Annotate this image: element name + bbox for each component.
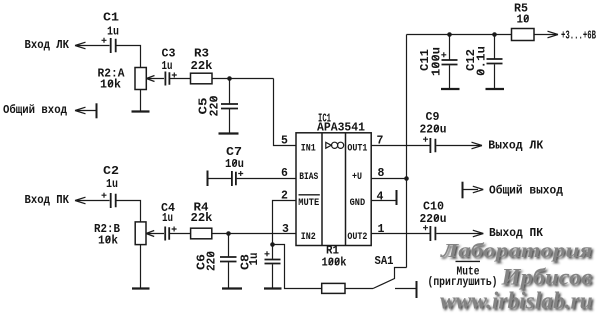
switch SA1 bbox=[373, 268, 417, 299]
capacitor C9 bbox=[423, 137, 435, 153]
svg-text:2: 2 bbox=[281, 190, 288, 203]
svg-text:Выход ПК: Выход ПК bbox=[489, 227, 543, 240]
wire IC pin 1 to C10 bbox=[371, 233, 429, 235]
svg-text:+3...+6В: +3...+6В bbox=[561, 30, 596, 43]
label Mute overline bbox=[456, 260, 481, 262]
port Общий вход terminal bbox=[96, 103, 98, 118]
terminal bar (C7 left) bbox=[207, 171, 209, 187]
supply rail wire bbox=[407, 34, 512, 36]
svg-text:SA1: SA1 bbox=[375, 255, 394, 268]
svg-text:Вход ЛК: Вход ЛК bbox=[25, 39, 70, 52]
svg-text:6: 6 bbox=[281, 167, 288, 180]
wire MUTE node to R1 bbox=[273, 245, 322, 289]
svg-text:C10: C10 bbox=[423, 201, 444, 214]
svg-text:7: 7 bbox=[377, 135, 384, 148]
svg-text:(приглушить): (приглушить) bbox=[428, 276, 498, 289]
wire R2:A bottom bbox=[140, 90, 142, 112]
port Общий вход arrow bbox=[75, 107, 96, 114]
svg-text:+U: +U bbox=[352, 172, 362, 183]
capacitor C2 bbox=[102, 193, 116, 208]
node R3/C5/IN1 bbox=[227, 76, 232, 81]
port +3...+6B arrow bbox=[548, 31, 559, 38]
svg-text:1u: 1u bbox=[106, 178, 118, 191]
+U vertical line bbox=[406, 35, 408, 268]
svg-text:220: 220 bbox=[206, 251, 219, 271]
node rail/C12 bbox=[492, 32, 497, 37]
svg-text:OUT1: OUT1 bbox=[347, 144, 367, 155]
wire C11 to ground bbox=[449, 65, 451, 89]
svg-text:4: 4 bbox=[377, 191, 384, 204]
svg-text:220u: 220u bbox=[420, 124, 447, 137]
wire IC pin 2 MUTE bbox=[273, 201, 297, 245]
svg-text:GND: GND bbox=[350, 198, 366, 209]
svg-text:R3: R3 bbox=[194, 48, 209, 61]
svg-text:100k: 100k bbox=[322, 257, 347, 270]
node pin8/+U bbox=[404, 176, 409, 181]
ground (C11) bbox=[441, 88, 460, 90]
svg-text:10: 10 bbox=[517, 14, 530, 27]
wire R5 to arrow bbox=[534, 34, 558, 36]
ground (C8) bbox=[264, 287, 282, 289]
svg-text:100u: 100u bbox=[431, 47, 444, 76]
wire C7 to IC pin 6 bbox=[237, 178, 296, 180]
svg-text:BIAS: BIAS bbox=[299, 172, 318, 183]
svg-text:10k: 10k bbox=[98, 235, 118, 248]
svg-text:1: 1 bbox=[378, 223, 385, 236]
wire C3 to R3 bbox=[170, 78, 191, 80]
potentiometer R2:A bbox=[135, 68, 164, 90]
svg-text:www.irbislab.ru: www.irbislab.ru bbox=[440, 288, 593, 314]
wire IC pin 8 to +U line bbox=[371, 178, 406, 180]
node rail/C11 bbox=[447, 32, 452, 37]
capacitor C8 bbox=[265, 251, 281, 263]
svg-text:Лаборатория: Лаборатория bbox=[440, 239, 593, 261]
wire C6 to ground bbox=[228, 262, 230, 288]
resistor R1 bbox=[322, 283, 345, 293]
port Выход ЛК arrow bbox=[472, 142, 483, 149]
capacitor C3 bbox=[165, 72, 176, 86]
wire R2:B bottom bbox=[140, 245, 142, 289]
svg-text:Ирбисов: Ирбисов bbox=[500, 265, 592, 290]
ground (C6) bbox=[222, 287, 242, 289]
wire C10 to arrow bbox=[436, 233, 483, 235]
svg-text:C2: C2 bbox=[103, 165, 119, 178]
svg-text:C9: C9 bbox=[426, 111, 440, 124]
ground (R2:B) bbox=[132, 287, 150, 289]
port Общий выход arrow bbox=[463, 186, 484, 193]
wire C9 to arrow bbox=[436, 145, 482, 147]
capacitor C11 bbox=[441, 52, 457, 64]
wire IC pin 7 to C9 bbox=[371, 145, 429, 147]
svg-text:Вход ПК: Вход ПК bbox=[25, 194, 70, 207]
wire node to C8 bbox=[272, 245, 274, 259]
watermark bbox=[440, 239, 593, 314]
capacitor C7 bbox=[232, 171, 243, 186]
wire node to IC pin 5 bbox=[274, 79, 297, 146]
wire C4 to R4 bbox=[170, 233, 191, 235]
svg-text:220: 220 bbox=[209, 95, 222, 116]
ground (C12) bbox=[486, 88, 505, 90]
terminal bar (GND pin 4) bbox=[396, 190, 398, 205]
capacitor C1 bbox=[102, 38, 116, 53]
svg-text:1u: 1u bbox=[162, 60, 173, 73]
MUTE overline inside IC1 bbox=[299, 194, 320, 196]
capacitor C4 bbox=[165, 227, 176, 241]
potentiometer R2:B bbox=[135, 222, 164, 245]
svg-text:1u: 1u bbox=[162, 212, 173, 225]
port Вход ПК arrow bbox=[75, 197, 110, 204]
wire C2 to R2:B top bbox=[117, 201, 141, 222]
wire R4 to node bbox=[212, 233, 296, 235]
wire R1 to SA1 bbox=[345, 288, 373, 290]
svg-text:10u: 10u bbox=[225, 158, 244, 171]
wire C12 to ground bbox=[494, 64, 496, 89]
svg-text:Общий выход: Общий выход bbox=[489, 185, 563, 198]
svg-text:C1: C1 bbox=[103, 11, 119, 24]
wire terminal to C7 bbox=[208, 178, 232, 180]
op-amp symbol inside IC1 bbox=[326, 142, 344, 148]
svg-text:10k: 10k bbox=[100, 79, 121, 92]
wire rail to C12 bbox=[494, 35, 496, 59]
svg-text:APA3541: APA3541 bbox=[317, 122, 365, 135]
wire node to C5 bbox=[229, 79, 231, 104]
wire C5 to ground bbox=[229, 109, 231, 134]
svg-text:C3: C3 bbox=[162, 48, 176, 61]
ground (C5) bbox=[219, 132, 239, 134]
wire IC pin 4 to terminal bbox=[371, 200, 395, 202]
node MUTE/C8 bbox=[270, 242, 275, 247]
port Вход ЛК arrow bbox=[75, 42, 110, 49]
wire rail to C11 bbox=[449, 35, 451, 60]
capacitor C12 bbox=[487, 59, 503, 64]
wire R3 to node bbox=[212, 78, 274, 80]
IC1 box bbox=[296, 133, 371, 246]
svg-text:3: 3 bbox=[282, 223, 289, 236]
resistor R5 bbox=[512, 29, 535, 41]
capacitor C5 bbox=[221, 104, 238, 109]
slashed zeros overlay bbox=[106, 16, 529, 265]
svg-text:1u: 1u bbox=[248, 252, 261, 265]
svg-text:OUT2: OUT2 bbox=[347, 232, 367, 243]
ground (R2:A) bbox=[132, 110, 150, 112]
svg-text:8: 8 bbox=[378, 167, 385, 180]
svg-text:0.1u: 0.1u bbox=[476, 46, 489, 76]
node R4/C6/IN2 bbox=[226, 231, 231, 236]
capacitor C10 bbox=[423, 225, 435, 241]
svg-text:IN1: IN1 bbox=[301, 144, 316, 155]
svg-text:Общий вход: Общий вход bbox=[3, 104, 67, 117]
svg-text:22k: 22k bbox=[191, 60, 213, 73]
resistor R4 bbox=[191, 228, 212, 239]
svg-text:22k: 22k bbox=[191, 212, 213, 225]
svg-text:IN2: IN2 bbox=[301, 232, 316, 243]
wire node to C6 bbox=[228, 234, 230, 257]
slashed zeros on rotated labels bbox=[208, 56, 484, 257]
wire C8 to ground bbox=[272, 264, 274, 288]
wire C1 to R2:A top bbox=[117, 46, 141, 68]
port Общий выход terminal bbox=[462, 182, 464, 199]
svg-text:5: 5 bbox=[281, 135, 288, 148]
port Выход ПК arrow bbox=[473, 230, 484, 237]
svg-text:220u: 220u bbox=[420, 213, 447, 226]
capacitor C6 bbox=[220, 257, 237, 262]
svg-text:MUTE: MUTE bbox=[298, 198, 319, 209]
svg-text:Выход ЛК: Выход ЛК bbox=[488, 140, 543, 153]
resistor R3 bbox=[191, 73, 213, 84]
svg-text:1u: 1u bbox=[107, 26, 119, 39]
